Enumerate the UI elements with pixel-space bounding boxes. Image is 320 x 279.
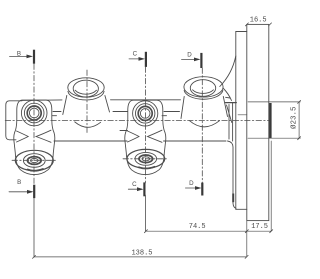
- wire body bottom corner into snout: [228, 141, 237, 208]
- node C vertical centerline: [144, 67, 146, 183]
- dim d23.5 extension lines: [248, 101, 300, 103]
- section marker B top: [10, 55, 32, 57]
- pilot boss: [269, 103, 272, 139]
- body right end: [228, 105, 230, 140]
- dim d23.5 line: [298, 102, 300, 138]
- node B outlet horizontal centerline: [12, 159, 57, 161]
- svg-text:138.5: 138.5: [131, 249, 152, 257]
- wire body top edge: [22, 99, 62, 102]
- section marker D top: [182, 58, 199, 60]
- dim 16.5 ticks: [245, 23, 248, 26]
- svg-text:16.5: 16.5: [250, 17, 267, 25]
- boss B chamfer marks: [17, 131, 29, 142]
- svg-text:D: D: [187, 51, 192, 58]
- wire body top edge right segment: [226, 102, 237, 104]
- port B front circles: [21, 100, 47, 126]
- section marker C bottom: [128, 188, 141, 190]
- wire main horizontal axis centerline: [5, 120, 269, 122]
- tower U2 rim: [184, 77, 223, 97]
- svg-text:B: B: [17, 50, 21, 57]
- node D vertical centerline: [201, 68, 203, 183]
- tower U1 rim: [68, 78, 104, 97]
- wire body bottom edge: [54, 140, 127, 142]
- left end cap: [6, 101, 22, 140]
- dim 138.5 line: [34, 256, 247, 258]
- boss C chamfer marks: [128, 131, 140, 142]
- wire rib diagonal: [227, 105, 232, 123]
- section marker D bottom: [185, 187, 199, 189]
- outlet B ellipses: [15, 150, 53, 170]
- tower U2 base arc: [190, 121, 220, 127]
- boss C outline: [125, 100, 166, 174]
- node C outlet horizontal centerline: [123, 158, 168, 160]
- svg-text:B: B: [17, 179, 21, 186]
- wire body feature lines: [53, 111, 61, 113]
- wire rib curve to tower: [220, 56, 236, 87]
- port C front circles: [133, 101, 158, 126]
- section marker B bottom: [9, 191, 32, 193]
- svg-text:C: C: [132, 181, 137, 188]
- stop pin: [232, 194, 234, 203]
- wire hidden bore line: [238, 114, 247, 116]
- plate left edge: [235, 32, 237, 210]
- flange: [247, 24, 269, 220]
- svg-text:C: C: [133, 51, 138, 58]
- boss B outline: [14, 100, 55, 175]
- section marker C top: [129, 58, 143, 60]
- svg-text:74.5: 74.5: [189, 223, 206, 231]
- svg-text:17.5: 17.5: [251, 223, 268, 231]
- tower U2 cone sides: [181, 97, 184, 119]
- svg-text:Ø23.5: Ø23.5: [290, 106, 299, 129]
- outlet C ellipses: [127, 149, 165, 168]
- node B vertical centerline: [33, 64, 35, 185]
- svg-text:D: D: [189, 180, 194, 187]
- node tower1 vertical centerline: [86, 70, 88, 133]
- tower U1 cone sides: [63, 96, 67, 115]
- tower U1 base arc: [75, 122, 101, 127]
- wire rim leader: [223, 88, 232, 101]
- dim 74.5 / 17.5 line: [146, 230, 271, 232]
